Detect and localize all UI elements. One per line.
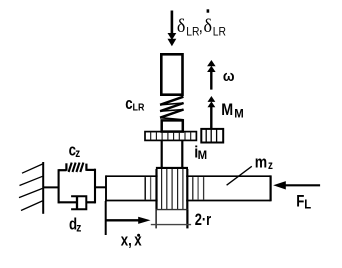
frame right — [94, 169, 96, 204]
shaft between gear and pinion — [162, 140, 183, 168]
svg-text:,: , — [199, 17, 203, 36]
svg-text:2·r: 2·r — [195, 210, 212, 229]
svg-text:M: M — [198, 149, 207, 162]
coupler block — [162, 120, 183, 131]
svg-text:LR: LR — [186, 26, 199, 39]
label M_M — [221, 101, 243, 121]
gear i_M left wheel — [145, 132, 196, 141]
svg-text:δ: δ — [177, 15, 186, 37]
svg-text:z: z — [75, 148, 80, 161]
spring c_z — [59, 163, 95, 172]
svg-text:M: M — [234, 107, 243, 120]
svg-text:δ: δ — [204, 15, 213, 37]
svg-text:M: M — [221, 101, 233, 119]
svg-text:LR: LR — [213, 26, 226, 39]
label F_L — [296, 192, 311, 212]
label delta_LR, delta-dot_LR — [177, 9, 226, 38]
dimension 2r extension lines — [151, 210, 191, 229]
arrow x — [106, 217, 151, 224]
damper d_z — [59, 196, 95, 209]
label m_z — [255, 153, 273, 172]
wire frame to rack — [95, 186, 106, 188]
label omega — [223, 68, 235, 85]
arrow M_M — [208, 96, 216, 130]
svg-text:z: z — [268, 159, 273, 172]
label i_M — [194, 144, 207, 162]
label c_LR — [125, 94, 144, 113]
svg-text:x,: x, — [121, 231, 132, 250]
label d_z — [69, 215, 82, 235]
rack teeth left — [144, 177, 146, 200]
pinion block — [156, 168, 189, 210]
svg-text:L: L — [304, 197, 311, 212]
leader line m_z — [227, 166, 252, 185]
svg-text:z: z — [76, 222, 81, 235]
svg-text:F: F — [296, 192, 304, 211]
wire wall to frame — [43, 186, 59, 188]
label c_z — [69, 141, 80, 161]
wall hatching — [19, 164, 43, 211]
label 2r — [195, 210, 212, 229]
rack teeth right — [192, 177, 194, 200]
wall — [42, 162, 44, 214]
svg-text:LR: LR — [133, 102, 145, 114]
rack bar m_z — [106, 175, 271, 201]
svg-text:m: m — [255, 153, 267, 172]
spring c_LR — [160, 97, 184, 120]
actuator block (motor) — [161, 54, 182, 94]
gear i_M right wheel — [201, 129, 223, 143]
arrow F_L — [273, 181, 320, 189]
frame left — [58, 169, 60, 203]
axis x reference line — [105, 201, 107, 235]
arrow delta_LR input — [168, 11, 177, 47]
label x, x-dot — [121, 231, 142, 250]
svg-text:ω: ω — [223, 68, 235, 85]
arrow omega — [207, 60, 216, 90]
